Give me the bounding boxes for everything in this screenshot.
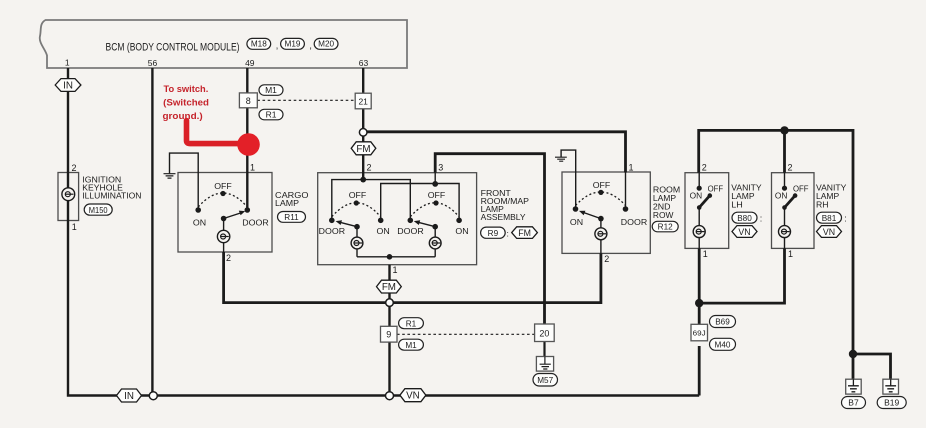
svg-text:49: 49 [245, 58, 255, 68]
connector oval M57 [533, 374, 558, 387]
svg-text:B80: B80 [737, 214, 752, 223]
connector oval M1 at box 9 [399, 339, 424, 350]
svg-text:ROW: ROW [653, 211, 674, 220]
svg-text:2: 2 [367, 163, 372, 173]
front switch A arm and pivot [336, 220, 360, 229]
IN hexagon at pin1 [55, 79, 81, 92]
front switch B OFF [428, 191, 446, 206]
cargo lamp box R11 [178, 173, 272, 253]
wire vanity RH pin2 drop [783, 130, 786, 172]
svg-text::: : [760, 214, 763, 224]
cargo lamp wire pivot to pin2 [223, 219, 225, 253]
wire front assembly pin3 to connector 20 [435, 154, 544, 324]
svg-text:VN: VN [406, 391, 420, 402]
front room/map lamp assembly box R9 [318, 173, 477, 265]
cargo switch OFF label and contact [214, 182, 232, 196]
pin number 1 below ignition box [72, 222, 77, 232]
svg-text:DOOR: DOOR [319, 227, 345, 236]
vanity lamp RH box B81 [772, 173, 815, 249]
wire BCM pin1 to IN and ignition lamp down to bottom rail [68, 68, 699, 396]
room lamp 2nd row box R12 [562, 172, 650, 253]
svg-text:1: 1 [65, 58, 70, 68]
front switch B contacts [397, 218, 468, 237]
lamp symbol room [595, 228, 607, 240]
svg-text:2: 2 [72, 163, 77, 173]
lamp symbol ignition keyhole [62, 188, 75, 201]
B7 B19 junction dot [849, 350, 857, 358]
front bottom bus to pin1 [357, 254, 435, 260]
svg-text:FM: FM [518, 228, 531, 238]
svg-text:M20: M20 [318, 40, 334, 49]
VN hexagon on bottom rail [400, 389, 426, 402]
connector oval R9 [481, 227, 509, 238]
vanity LH inner wire and contact [697, 173, 702, 249]
cargo switch arm and pivot [221, 211, 245, 222]
VN hexagon label LH [732, 226, 757, 238]
svg-text:1: 1 [393, 265, 398, 275]
svg-text:RH: RH [816, 201, 829, 210]
svg-text:B69: B69 [715, 318, 730, 327]
svg-text:ON: ON [455, 227, 468, 236]
lamp symbol front A [351, 237, 363, 249]
vanity LH pin1 label [703, 249, 708, 259]
red highlight dot on pin49 wire [237, 133, 260, 156]
wire vanity rail from LH pin2 over to right drop [699, 130, 853, 379]
connector oval B81 [817, 212, 847, 223]
svg-text:,: , [309, 41, 312, 51]
connector oval M150 [84, 204, 112, 215]
svg-text:ON: ON [775, 191, 788, 200]
svg-text::: : [507, 228, 509, 238]
svg-text:DOOR: DOOR [621, 218, 647, 227]
room lamp wire pivot to pin2 [600, 219, 602, 254]
svg-text:OFF: OFF [349, 191, 367, 200]
svg-text:(Switched: (Switched [163, 97, 209, 108]
wire cargo lamp pin2 to FM junction [224, 252, 390, 303]
svg-text:ON: ON [193, 218, 206, 227]
FM hexagon label of R9 [512, 227, 538, 239]
svg-text:DOOR: DOOR [397, 227, 423, 236]
dashed link connector 8 to 21 [257, 99, 355, 101]
connector oval M1 at pin49 [259, 85, 283, 96]
svg-text:63: 63 [359, 58, 369, 68]
pin number 2 below cargo box [226, 253, 231, 263]
vanity LH switch arm [697, 193, 712, 210]
svg-text:IN: IN [63, 81, 73, 92]
svg-text:LH: LH [731, 201, 743, 210]
front switch B dashed arc [410, 203, 459, 217]
front switch B arm and pivot [414, 220, 438, 229]
room switch dashed arc [576, 192, 626, 206]
front switch A contacts [319, 218, 390, 237]
wire vanity RH pin1 to junction [699, 248, 784, 303]
connector ring at pin63 node [359, 129, 367, 137]
vanity RH switch arm [782, 193, 797, 210]
connector oval M19 [281, 38, 312, 50]
ground and wire to room lamp ON contact [555, 150, 576, 209]
svg-text:,: , [276, 41, 279, 51]
wire vanity LH pin1 to 69J junction [698, 248, 701, 324]
connector oval B80 [732, 212, 762, 223]
svg-text:M18: M18 [251, 40, 267, 49]
red pointer line [187, 121, 241, 144]
wire room lamp pin2 to FM junction [390, 253, 601, 302]
svg-text:B19: B19 [884, 398, 899, 408]
svg-text:R9: R9 [488, 229, 499, 238]
svg-text:1: 1 [788, 249, 793, 259]
ground and wire to cargo lamp ON contact [164, 153, 199, 210]
vanity pin1 junction dot [695, 299, 703, 307]
connector ring pin56 at bottom rail [149, 392, 157, 400]
front assembly pin3 label [438, 163, 443, 173]
cargo switch ON contact [193, 207, 206, 227]
wire 69J to bottom rail [698, 346, 701, 396]
IN hexagon on bottom rail [117, 389, 142, 402]
svg-text:OFF: OFF [428, 191, 446, 200]
vanity RH pin1 label [788, 249, 793, 259]
connector ring at VN junction [386, 392, 394, 400]
red note To switch. (Switched ground.) [163, 84, 210, 122]
svg-text:To switch.: To switch. [164, 84, 209, 95]
svg-text:2: 2 [604, 254, 609, 264]
room switch DOOR contact [621, 206, 647, 227]
vanity lamp LH box B80 [685, 173, 729, 249]
wire B7 B19 ground branch [853, 354, 891, 379]
connector oval M20 [314, 38, 338, 49]
room lamp pin1 inner wire [625, 172, 627, 209]
BCM pin numbers 1 56 49 63 [65, 58, 369, 69]
vanity RH ON OFF labels [775, 185, 809, 201]
svg-text:OFF: OFF [793, 185, 809, 194]
front lamp B wire [434, 227, 436, 257]
svg-text:ILLUMINATION: ILLUMINATION [82, 192, 141, 201]
label CARGO LAMP [275, 191, 309, 208]
connector box 21 [355, 93, 371, 109]
cargo switch dashed arc [198, 193, 247, 207]
svg-text:69J: 69J [693, 329, 706, 338]
front assembly inner bus pin3 to ON contacts [381, 173, 459, 221]
wire BCM pin49 to cargo lamp DOOR contact [246, 68, 248, 210]
connector oval B19 [877, 397, 906, 409]
connector oval R1 at pin49 [259, 109, 283, 120]
VN hexagon label RH [817, 226, 842, 238]
svg-text:1: 1 [72, 222, 77, 232]
svg-text:ON: ON [377, 227, 390, 236]
connector oval M18 [247, 38, 278, 50]
room switch arm and pivot [579, 211, 604, 222]
vanity LH pin2 label [702, 163, 707, 173]
vanity rail junction dot [780, 126, 788, 134]
wire feed from pin63 node to room lamp pin1 [363, 132, 625, 173]
ground box B19 [883, 379, 899, 394]
FM hexagon below front assembly [377, 280, 402, 293]
svg-text:M150: M150 [89, 206, 108, 215]
svg-text:1: 1 [250, 163, 255, 173]
svg-text:M57: M57 [537, 376, 553, 385]
svg-text:OFF: OFF [593, 181, 611, 190]
svg-text:9: 9 [386, 330, 391, 340]
svg-text:VN: VN [823, 227, 835, 237]
vanity RH inner wire and contact [782, 173, 787, 249]
vanity LH ON OFF labels [690, 185, 724, 201]
cargo switch DOOR contact [242, 207, 268, 227]
pin number 1 at cargo lamp [250, 163, 255, 173]
label ROOM LAMP 2ND ROW [653, 186, 680, 220]
connector oval B7 [842, 397, 866, 409]
front switch A dashed arc [332, 203, 381, 217]
wire BCM pin56 down to bottom rail [151, 68, 153, 396]
wire BCM pin63 through connector 21 and FM to front assembly pin2 [362, 68, 364, 180]
svg-text::: : [844, 214, 847, 224]
svg-text:1: 1 [703, 249, 708, 259]
ignition keyhole illumination box M150 [58, 173, 79, 221]
room pin2 label [604, 254, 609, 264]
svg-text:M1: M1 [265, 85, 277, 95]
FM hexagon at pin63 [351, 142, 376, 155]
connector oval M40 [710, 338, 736, 350]
svg-text:R11: R11 [284, 213, 299, 222]
svg-text:56: 56 [148, 58, 158, 68]
front pin1 label [393, 265, 398, 275]
pin number 2 at ignition box [72, 163, 77, 173]
svg-text:OFF: OFF [214, 182, 232, 191]
BCM (Body Control Module) box [40, 20, 407, 68]
svg-text:2: 2 [788, 163, 793, 173]
svg-text:2: 2 [226, 253, 231, 263]
svg-text:8: 8 [246, 96, 251, 106]
svg-text:M1: M1 [405, 341, 417, 350]
connector oval R11 [278, 212, 306, 223]
connector oval R1 at box 9 [399, 318, 424, 329]
svg-text:M19: M19 [285, 40, 301, 49]
svg-text:B7: B7 [848, 398, 859, 408]
ground box M57 [536, 357, 553, 372]
connector box 8 [239, 93, 257, 108]
svg-text:ON: ON [570, 218, 583, 227]
vanity RH pin2 label [788, 163, 793, 173]
svg-text:R12: R12 [658, 223, 673, 232]
svg-text:ON: ON [690, 191, 703, 200]
dashed link connector 9 to 20 [397, 333, 535, 335]
svg-text:LAMP: LAMP [275, 199, 300, 208]
lamp symbol cargo [217, 230, 229, 242]
svg-text:FM: FM [382, 282, 396, 293]
connector box 69J [691, 324, 708, 341]
connector box 9 [381, 326, 398, 342]
svg-text:FM: FM [356, 144, 370, 155]
front switch A OFF [349, 191, 367, 206]
svg-text:R1: R1 [266, 110, 277, 120]
front assembly pin2 label [367, 163, 372, 173]
room lamp pin1 label [629, 163, 634, 173]
lamp symbol vanity RH [779, 226, 791, 238]
room switch OFF [593, 181, 611, 195]
connector box 20 [535, 324, 555, 342]
lamp symbol vanity LH [693, 226, 705, 238]
svg-text:3: 3 [438, 163, 443, 173]
connector ring FM junction [386, 299, 394, 307]
svg-text:ASSEMBLY: ASSEMBLY [481, 213, 526, 222]
front assembly inner bus pin2 to DOOR contacts [332, 177, 411, 221]
lamp symbol front B [429, 237, 441, 249]
svg-text:DOOR: DOOR [242, 218, 268, 227]
wire connector20 to M57 ground [543, 342, 545, 357]
svg-text:1: 1 [629, 163, 634, 173]
svg-text:VN: VN [738, 227, 750, 237]
svg-text:M40: M40 [715, 340, 731, 349]
wire front assembly pin1 through FM to connector 9 and VN rail [388, 265, 390, 396]
svg-text:21: 21 [358, 96, 368, 106]
svg-text:R1: R1 [406, 319, 417, 328]
room switch ON contact [570, 206, 583, 227]
front lamp A wire [356, 227, 358, 257]
connector oval B69 [710, 316, 736, 328]
svg-text:ground.): ground.) [163, 111, 203, 122]
svg-text:OFF: OFF [708, 185, 724, 194]
label IGNITION KEYHOLE ILLUMINATION [82, 176, 141, 201]
svg-text:IN: IN [124, 391, 134, 402]
label VANITY LAMP LH [731, 184, 762, 210]
label VANITY LAMP RH [816, 184, 847, 210]
svg-text:20: 20 [539, 328, 549, 338]
label FRONT ROOM/MAP LAMP ASSEMBLY [481, 189, 530, 222]
svg-text:B81: B81 [822, 214, 837, 223]
svg-text:2: 2 [702, 163, 707, 173]
connector oval R12 [652, 221, 678, 232]
svg-text:BCM (BODY CONTROL MODULE): BCM (BODY CONTROL MODULE) [106, 41, 240, 53]
ground box B7 [846, 379, 862, 394]
